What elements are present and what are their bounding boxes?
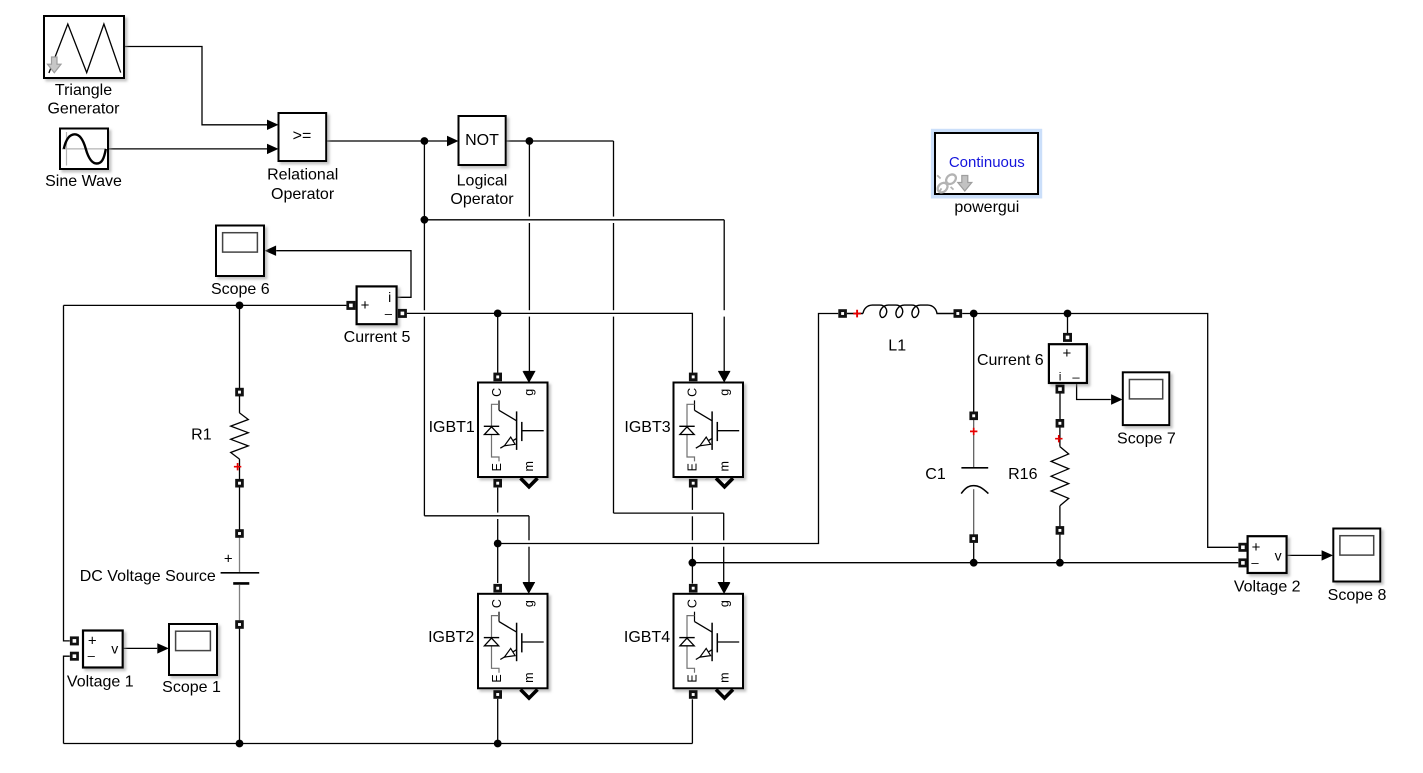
svg-text:g: g xyxy=(522,389,536,396)
R16 port bottom xyxy=(1056,526,1065,535)
IGBT1 internal diode branch wire xyxy=(492,404,500,461)
svg-text:IGBT4: IGBT4 xyxy=(624,629,670,646)
wire NOT output going right xyxy=(506,140,614,142)
svg-text:m: m xyxy=(718,461,732,471)
svg-text:Operator: Operator xyxy=(450,191,514,208)
svg-text:–: – xyxy=(1072,370,1080,385)
IGBT2 internal diode xyxy=(484,637,499,639)
svg-text:g: g xyxy=(718,389,732,396)
wire vertical x724.2 down to IGBT3 gate xyxy=(723,220,725,310)
IGBT4 internal collector stub xyxy=(694,612,696,622)
wire Current 5 i-output to Scope 6 xyxy=(276,251,411,298)
svg-text:C: C xyxy=(490,388,504,397)
wire R1 top to rail xyxy=(239,305,241,388)
powergui broken link icon xyxy=(936,181,950,194)
L1 port left xyxy=(838,309,847,318)
junction node at (973.7,313.5) xyxy=(970,310,978,318)
svg-text:E: E xyxy=(685,674,699,682)
Sine Wave axes xyxy=(66,132,68,166)
IGBT1 port m chevron xyxy=(521,478,538,487)
IGBT2 port E xyxy=(493,690,502,699)
IGBT1 internal diode xyxy=(484,425,499,427)
svg-text:C1: C1 xyxy=(925,466,946,483)
svg-text:C: C xyxy=(490,599,504,608)
junction node at NOT output (529,141) xyxy=(526,137,534,145)
wire Current 6 i-output to Scope 7 xyxy=(1077,384,1111,400)
svg-text:Scope 8: Scope 8 xyxy=(1328,587,1387,604)
scope Scope 6 xyxy=(216,226,264,277)
IGBT3 port E xyxy=(689,479,698,488)
R1 port bottom xyxy=(235,479,244,488)
svg-text:IGBT1: IGBT1 xyxy=(429,419,475,436)
svg-text:–: – xyxy=(385,306,393,321)
IGBT2 internal diode branch wire xyxy=(492,616,500,673)
svg-text:R16: R16 xyxy=(1008,466,1037,483)
R1 red plus polarity mark xyxy=(234,463,241,470)
Triangle Generator gray arrow glyph xyxy=(48,57,62,73)
IGBT2 port C xyxy=(493,584,502,593)
wire down from junction to IGBT1 collector xyxy=(497,313,499,372)
IGBT2 port m chevron xyxy=(521,690,538,699)
scope Scope 7 xyxy=(1123,372,1170,425)
meter Current 6 block xyxy=(1049,344,1087,383)
op Relational Operator block xyxy=(279,113,327,161)
junction node at (497.7,313.4) xyxy=(494,310,502,318)
junction node at (692.4,562.7) xyxy=(689,559,697,567)
svg-text:+: + xyxy=(1063,345,1072,362)
C1 port top xyxy=(969,412,978,421)
IGBT IGBT1 block body xyxy=(478,383,548,478)
Voltage 2 - port xyxy=(1238,558,1247,567)
junction node at (424,219.8) xyxy=(421,216,429,224)
wire Current 6 bottom port to R16 top port xyxy=(1059,393,1061,419)
wire branch y=219.8 from x424 to IGBT3 gate xyxy=(424,219,724,221)
IGBT4 port E xyxy=(689,690,698,699)
Voltage 1 + port xyxy=(70,636,79,645)
resistor R16 xyxy=(1059,427,1061,446)
svg-text:Voltage 1: Voltage 1 xyxy=(67,674,134,691)
wire R16 bottom port to output rail xyxy=(1059,535,1061,563)
Current 5 output port xyxy=(398,309,407,318)
svg-text:IGBT2: IGBT2 xyxy=(428,629,474,646)
svg-text:Current 6: Current 6 xyxy=(977,352,1044,369)
wire left column x63.5 down to Voltage 1 + input xyxy=(64,305,70,641)
R16 red plus polarity mark xyxy=(1055,435,1062,442)
IGBT3 internal diode xyxy=(679,425,694,427)
wire Current 5 output y313.4 to IGBT1/IGBT3 collectors xyxy=(407,313,693,372)
Current 6 bottom port xyxy=(1056,385,1065,394)
Voltage 1 - port xyxy=(70,652,79,661)
svg-text:–: – xyxy=(1251,555,1259,570)
wire bottom rail y743.5 xyxy=(64,743,693,745)
source DC Voltage Source battery xyxy=(239,538,241,572)
C1 red plus polarity mark xyxy=(970,428,977,435)
inductor L1 xyxy=(847,313,863,315)
wire L1 output rail to Voltage 2 + input xyxy=(962,314,1238,548)
DC Voltage Source port top xyxy=(235,529,244,538)
svg-text:m: m xyxy=(522,461,536,471)
svg-text:i: i xyxy=(388,289,391,305)
svg-text:C: C xyxy=(685,388,699,397)
svg-text:powergui: powergui xyxy=(954,199,1019,216)
svg-text:Current 5: Current 5 xyxy=(344,329,411,346)
Sine Wave curve xyxy=(64,134,106,163)
svg-text:Relational: Relational xyxy=(267,166,338,183)
IGBT IGBT2 block body xyxy=(478,594,548,689)
IGBT4 port m chevron xyxy=(716,690,733,699)
wire output bottom rail y562.7 to Voltage 2 - input xyxy=(692,562,1238,564)
wire IGBT4 emitter to bottom rail xyxy=(691,699,693,743)
IGBT1 internal collector stub xyxy=(498,400,500,410)
svg-text:Operator: Operator xyxy=(271,186,335,203)
svg-text:i: i xyxy=(1059,370,1062,384)
svg-text:DC Voltage Source: DC Voltage Source xyxy=(80,568,216,585)
svg-text:>=: >= xyxy=(293,128,312,145)
junction node at (239.5,743.5) xyxy=(236,740,244,748)
svg-text:NOT: NOT xyxy=(465,132,499,149)
IGBT1 internal IGBT symbol xyxy=(499,410,517,421)
svg-text:L1: L1 xyxy=(888,338,906,355)
IGBT3 port m chevron xyxy=(716,478,733,487)
wire IGBT1 emitter down to midpoint junction and IGBT2 collector xyxy=(497,488,499,513)
block Sine Wave xyxy=(60,129,108,170)
L1 port right xyxy=(954,309,963,318)
IGBT4 gate input arrow xyxy=(718,583,730,594)
wire IGBT2 gate feed horizontal y=515.8 then down xyxy=(424,515,529,517)
svg-text:+: + xyxy=(224,551,233,568)
IGBT3 port C xyxy=(689,373,698,382)
IGBT2 internal collector stub xyxy=(498,612,500,622)
IGBT2 gate input arrow xyxy=(523,583,535,594)
svg-text:Generator: Generator xyxy=(47,100,120,117)
IGBT4 port C xyxy=(689,584,698,593)
L1 red plus polarity mark xyxy=(853,310,861,318)
IGBT3 internal IGBT symbol xyxy=(695,410,713,421)
IGBT4 internal IGBT symbol xyxy=(695,622,713,633)
wire NOT branch x613.5 down, right at y513.1, down to IGBT4 gate xyxy=(613,141,615,217)
meter Current 5 block xyxy=(357,286,397,324)
powergui gray down arrow icon xyxy=(958,176,972,192)
IGBT2 internal IGBT symbol xyxy=(499,622,517,633)
svg-text:Scope 6: Scope 6 xyxy=(211,281,270,298)
junction node at (497.7,543.5) xyxy=(494,540,502,548)
svg-text:Logical: Logical xyxy=(457,172,508,189)
meter Voltage 1 block xyxy=(83,631,123,668)
svg-text:m: m xyxy=(522,672,536,682)
wire Sine Wave output to Relational Operator input 2 xyxy=(108,148,267,150)
IGBT3 internal collector stub xyxy=(694,400,696,410)
IGBT1 port E xyxy=(493,479,502,488)
IGBT IGBT3 block body xyxy=(674,383,744,478)
svg-text:C: C xyxy=(685,599,699,608)
wire bridge midpoint to L1 input xyxy=(498,314,839,544)
svg-text:Scope 1: Scope 1 xyxy=(162,679,221,696)
wire C1 bottom port to output rail xyxy=(973,543,975,563)
svg-text:Continuous: Continuous xyxy=(949,154,1025,171)
wire Voltage 1 output to Scope 1 xyxy=(123,647,157,649)
svg-text:+: + xyxy=(361,297,370,314)
IGBT3 internal diode branch wire xyxy=(687,404,695,461)
R1 port top xyxy=(235,388,244,397)
wire Triangle Generator output to Relational Operator input 1 xyxy=(124,47,267,125)
junction node at (424,141) xyxy=(421,137,429,145)
svg-text:IGBT3: IGBT3 xyxy=(624,419,670,436)
svg-text:Triangle: Triangle xyxy=(55,82,112,99)
op Logical Operator NOT block xyxy=(459,116,506,165)
wire vertical x424 from relational junction down to IGBT2 gate channel xyxy=(423,141,425,310)
block Triangle Generator xyxy=(44,16,124,78)
wire left rail y305.4 from left column to Current 5 + input xyxy=(64,304,347,306)
IGBT1 port C xyxy=(493,373,502,382)
svg-text:E: E xyxy=(490,674,504,682)
wire Voltage 1 - input to left column down to bottom rail xyxy=(64,656,70,743)
wire vertical x529.4 NOT junction down to IGBT1 gate xyxy=(528,141,530,217)
svg-text:E: E xyxy=(685,463,699,471)
wire Voltage 2 output to Scope 8 xyxy=(1287,554,1322,556)
IGBT1 gate input arrow xyxy=(523,371,535,382)
scope Scope 1 xyxy=(169,624,217,675)
svg-text:Voltage 2: Voltage 2 xyxy=(1234,579,1301,596)
svg-text:E: E xyxy=(490,463,504,471)
block powergui (selected) xyxy=(931,129,1042,199)
svg-text:v: v xyxy=(1275,548,1282,564)
wire IGBT2 emitter to bottom rail xyxy=(497,699,499,744)
IGBT4 internal diode branch wire xyxy=(687,616,695,673)
IGBT IGBT4 block body xyxy=(674,594,744,689)
svg-text:g: g xyxy=(718,600,732,607)
junction node at (497.7,743.5) xyxy=(494,740,502,748)
svg-text:+: + xyxy=(1252,539,1261,556)
svg-text:Sine Wave: Sine Wave xyxy=(45,173,122,190)
wire down to Current 6 top port xyxy=(1067,314,1069,334)
meter Voltage 2 block xyxy=(1248,536,1287,573)
capacitor C1 xyxy=(973,420,975,467)
scope Scope 8 xyxy=(1333,529,1380,582)
IGBT4 internal diode xyxy=(679,637,694,639)
DC Voltage Source port bottom xyxy=(235,620,244,629)
svg-text:m: m xyxy=(718,672,732,682)
R16 port top xyxy=(1056,419,1065,428)
svg-text:R1: R1 xyxy=(191,426,212,443)
svg-text:v: v xyxy=(111,641,118,657)
wire Relational Operator output to NOT input xyxy=(326,140,447,142)
junction node at (239.5,305.4) xyxy=(236,302,244,310)
Current 6 top port xyxy=(1063,333,1072,342)
IGBT3 gate input arrow xyxy=(718,371,730,382)
junction node at (973.7,562.7) xyxy=(970,559,978,567)
svg-text:Scope 7: Scope 7 xyxy=(1117,430,1176,447)
svg-text:+: + xyxy=(88,632,97,649)
svg-text:g: g xyxy=(522,600,536,607)
wire R1 bottom port to DC source top port xyxy=(239,487,241,530)
wire IGBT3 emitter down to junction and IGBT4 collector xyxy=(691,488,693,510)
svg-text:–: – xyxy=(88,648,96,663)
junction node at (1059.9,562.7) xyxy=(1056,559,1064,567)
junction node at (1067.5,313.5) xyxy=(1064,310,1072,318)
C1 port bottom xyxy=(969,534,978,543)
Current 5 input port xyxy=(346,301,355,310)
wire DC source bottom port to bottom rail xyxy=(239,629,241,744)
wire down to C1 top port xyxy=(973,314,975,412)
resistor R1 xyxy=(239,396,241,413)
Voltage 2 + port xyxy=(1238,543,1247,552)
